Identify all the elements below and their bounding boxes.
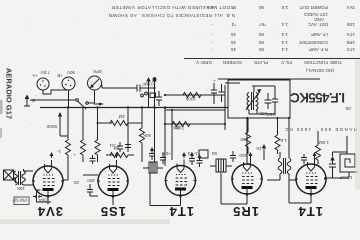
- junction dot grid line: [164, 94, 166, 96]
- if bypass cap C19: [149, 147, 155, 160]
- svg-text:300: 300: [87, 178, 95, 183]
- svg-text:1R5: 1R5: [232, 204, 259, 219]
- battery plug P1: [31, 70, 50, 90]
- wire V4 audio out: [83, 174, 98, 176]
- plate arrow V1: [309, 193, 313, 197]
- svg-text:SC-1: SC-1: [170, 125, 181, 130]
- svg-text:TUBE: TUBE: [330, 60, 342, 65]
- svg-text:+A: +A: [31, 73, 38, 78]
- wire loop top to grid: [348, 172, 350, 178]
- svg-text:90: 90: [258, 32, 264, 37]
- wire coil to oscillator grid: [288, 118, 290, 154]
- svg-text:PM SP: PM SP: [13, 198, 27, 203]
- screen feed wire: [171, 110, 173, 160]
- output transformer T3 10K: [14, 169, 33, 191]
- ground arrow G6: [263, 149, 265, 160]
- svg-text:1.4: 1.4: [281, 40, 288, 45]
- switch SW1: [30, 90, 104, 109]
- svg-text:50: 50: [240, 137, 246, 142]
- svg-text:AERADIO G17: AERADIO G17: [5, 68, 14, 119]
- i.f. transformer IFT1: [210, 159, 232, 172]
- svg-text:1.4: 1.4: [281, 47, 288, 52]
- svg-text:*67: *67: [259, 22, 266, 27]
- svg-text:1.4: 1.4: [281, 22, 288, 27]
- feedback capacitor C12 .004: [33, 190, 51, 203]
- avc line cap C9: [156, 91, 162, 106]
- svg-text:90: 90: [258, 40, 264, 45]
- plate bypass cap C14 300: [87, 178, 98, 196]
- junction dot osc top A: [276, 117, 278, 119]
- svg-text:1T4: 1T4: [347, 47, 355, 52]
- junction dot bus-left: [224, 123, 226, 125]
- grid resistor R1: [316, 131, 330, 164]
- decoupling wire: [127, 108, 129, 153]
- bus node dots: [127, 106, 129, 108]
- diode cap C15: [90, 155, 96, 164]
- svg-text:1.5: 1.5: [280, 138, 287, 143]
- svg-text:1S5: 1S5: [100, 204, 126, 219]
- line mid: [165, 109, 225, 111]
- table row 5: [207, 5, 355, 10]
- if bypass cap C20: [160, 153, 166, 164]
- cathode bypass C2: [301, 154, 307, 164]
- svg-text:1S5: 1S5: [346, 22, 355, 27]
- osc coupling cap C16: [230, 151, 236, 162]
- wire loop bottom down: [346, 136, 348, 154]
- svg-text:1T4: 1T4: [169, 204, 194, 219]
- tube pin ticks: [32, 179, 327, 181]
- tube V4 1S5 detector AVC audio: [98, 160, 128, 204]
- table row 4: [211, 12, 355, 27]
- tuning capacitor C1A: [329, 156, 336, 174]
- svg-text:I.F. AMP.: I.F. AMP.: [310, 32, 328, 37]
- return stub arrow N1: [152, 77, 156, 108]
- plate feed resistor R13 2M: [96, 114, 142, 126]
- svg-text:.05: .05: [345, 106, 352, 111]
- svg-text:45: 45: [230, 32, 236, 37]
- svg-text:1T4: 1T4: [298, 204, 323, 219]
- osc grid resistor R3: [240, 118, 251, 154]
- tube V2 1R5 converter: [232, 158, 262, 202]
- tube V1 1T4 R.F. amplifier: [296, 158, 326, 202]
- plate arrow V5: [46, 195, 50, 199]
- svg-text:1T4: 1T4: [347, 32, 355, 37]
- svg-text:I.F.455KC: I.F.455KC: [290, 90, 345, 105]
- r.f. coil T1: [267, 152, 296, 180]
- svg-text:(NO SIGNAL): (NO SIGNAL): [305, 68, 334, 73]
- svg-text:50: 50: [211, 151, 217, 156]
- svg-text:+: +: [213, 78, 216, 83]
- junction dot osc top B: [246, 117, 248, 119]
- svg-text:1ST AUDIO: 1ST AUDIO: [304, 12, 328, 17]
- plate arrow V4: [111, 195, 115, 199]
- svg-text:CONVERTER: CONVERTER: [299, 40, 328, 45]
- page edge smudge bottom: [0, 219, 170, 224]
- svg-text:45: 45: [230, 40, 236, 45]
- vertical wire node V: [164, 108, 166, 167]
- table row 3: [211, 32, 355, 37]
- svg-text:FIL.V: FIL.V: [280, 60, 292, 65]
- loop antenna L1: [339, 154, 358, 180]
- return stub arrow N2: [146, 77, 150, 108]
- svg-text:90: 90: [258, 5, 264, 10]
- bias resistor R11: [81, 108, 86, 163]
- plate arrow V2: [245, 193, 249, 197]
- svg-text:1-V3: 1-V3: [187, 151, 197, 156]
- phone jack J1: [88, 69, 103, 90]
- speaker LS1: [4, 170, 30, 205]
- r.f. secondary resistor R2: [275, 118, 287, 154]
- svg-text:20: 20: [73, 180, 79, 185]
- table row 2: [211, 40, 355, 45]
- grid resistor R7: [183, 93, 201, 102]
- line to oscillator: [165, 94, 225, 96]
- ground arrow G4: [115, 152, 119, 158]
- detector load resistor R6 1M: [106, 146, 134, 158]
- load resistor R12: [95, 108, 100, 163]
- i.f. transformer IFT2: [143, 162, 163, 173]
- page speck A: [0, 100, 3, 114]
- osc grid cap C6: [219, 84, 225, 102]
- svg-text:SPK: SPK: [92, 69, 102, 74]
- jack contact circles on audio line: [145, 92, 148, 95]
- osc bypass cap C7: [211, 83, 217, 104]
- svg-text:90: 90: [258, 47, 264, 52]
- screen resistor R8: [140, 106, 152, 162]
- svg-text:FUNCTION: FUNCTION: [304, 60, 328, 65]
- svg-text:90V: 90V: [66, 70, 75, 75]
- tube V3 1T4 I.F. amplifier: [166, 160, 196, 204]
- oscillator wiring: [274, 86, 276, 93]
- ground arrow G3: [182, 152, 186, 158]
- svg-text:B: B: [32, 98, 35, 103]
- main B+ bus: [40, 107, 228, 109]
- svg-text:.004: .004: [39, 198, 48, 203]
- svg-text:3V4: 3V4: [346, 5, 355, 10]
- svg-text:1-: 1-: [56, 149, 61, 154]
- svg-text:R.F. AMP.: R.F. AMP.: [308, 47, 328, 52]
- electrolytic block C13: [187, 150, 217, 158]
- svg-text:1R5: 1R5: [346, 40, 355, 45]
- svg-text:*3: *3: [231, 22, 236, 27]
- svg-text:3V4: 3V4: [37, 204, 63, 219]
- wire plug link: [43, 90, 69, 94]
- page speck B: [0, 128, 2, 138]
- svg-text:500K: 500K: [45, 124, 57, 129]
- tube V5 3V4 power output: [33, 160, 63, 204]
- svg-text:.01: .01: [109, 143, 116, 148]
- audio coupling cap C8 .01MF: [102, 82, 156, 163]
- svg-text:10K: 10K: [16, 186, 25, 191]
- ground arrow G2: [249, 152, 253, 158]
- plate arrow V3: [179, 195, 183, 199]
- svg-text:1.5M: 1.5M: [319, 140, 329, 145]
- grid bypass cap C11: [189, 152, 195, 165]
- battery plug P2: [57, 70, 75, 90]
- wire V5 grid in: [63, 179, 68, 181]
- svg-text:+0.5: +0.5: [161, 151, 171, 156]
- svg-text:+: +: [73, 152, 76, 157]
- ground arrow G5: [50, 152, 54, 158]
- page edge smudge right: [355, 60, 360, 190]
- oscillator trimmer C4: [265, 93, 272, 109]
- A- line: [218, 78, 320, 80]
- svg-text:GRID V.: GRID V.: [195, 60, 212, 65]
- svg-text:* DOT MEASURED WITH OSCILLATOR: * DOT MEASURED WITH OSCILLATOR V/METER.: [110, 5, 234, 10]
- padder capacitor C5: [265, 93, 278, 117]
- svg-text:1.4: 1.4: [281, 32, 288, 37]
- svg-text:50K: 50K: [142, 133, 151, 138]
- table rule: [184, 58, 360, 60]
- chassis arrow B: [24, 95, 35, 107]
- line AVC: [165, 123, 225, 125]
- ground arrow G1: [313, 152, 317, 158]
- wire osc to converter: [224, 85, 226, 130]
- junction dot avc: [164, 123, 166, 125]
- svg-text:100: 100: [239, 153, 247, 158]
- grid bypass cap C10: [197, 154, 203, 167]
- oscillator coil L2: [246, 89, 267, 116]
- AVC resistor R5: [172, 122, 190, 131]
- svg-text:100K: 100K: [184, 97, 196, 102]
- svg-text:2.8: 2.8: [281, 5, 288, 10]
- svg-text:1K: 1K: [255, 146, 262, 151]
- svg-text:45: 45: [230, 47, 236, 52]
- oscillator section box: [228, 80, 290, 118]
- table row 1: [211, 47, 355, 52]
- bypass cap C17: [125, 145, 131, 148]
- svg-text:N.B. ALL RESISTANCES TO CHASSI: N.B. ALL RESISTANCES TO CHASSIS . AS SHO…: [107, 13, 235, 18]
- scan noise specks: [28, 16, 350, 195]
- volume control R10 500K: [45, 108, 70, 163]
- svg-text:2M: 2M: [118, 114, 125, 119]
- svg-text:+B: +B: [57, 73, 63, 78]
- svg-text:POWER OUT.: POWER OUT.: [299, 5, 328, 10]
- tone cap box: [150, 93, 156, 98]
- wire IF plate: [180, 198, 182, 206]
- svg-text:SCREEN: SCREEN: [223, 60, 242, 65]
- svg-text:PLATE: PLATE: [254, 60, 268, 65]
- cap C18 .01: [109, 142, 123, 152]
